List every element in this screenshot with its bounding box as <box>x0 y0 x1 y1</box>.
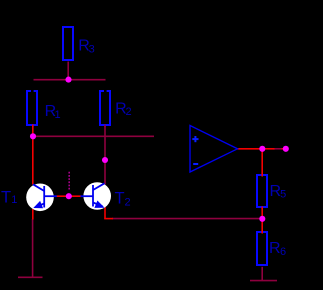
svg-text:5: 5 <box>280 188 286 200</box>
svg-text:3: 3 <box>89 43 95 55</box>
svg-text:1: 1 <box>55 109 61 121</box>
svg-text:2: 2 <box>126 106 132 118</box>
svg-text:2: 2 <box>125 196 131 208</box>
svg-text:T: T <box>1 188 11 206</box>
svg-text:6: 6 <box>280 246 286 258</box>
svg-text:T: T <box>115 190 125 208</box>
svg-text:1: 1 <box>11 194 17 206</box>
svg-text:R: R <box>269 240 281 257</box>
